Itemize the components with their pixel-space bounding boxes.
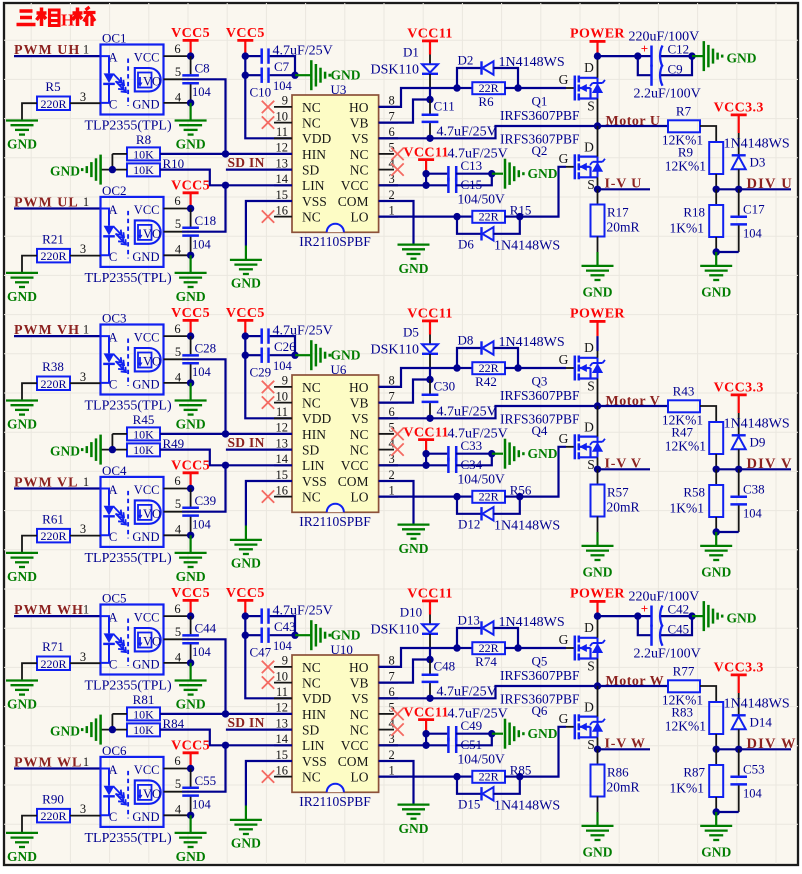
svg-text:11: 11 xyxy=(276,685,288,699)
svg-text:D: D xyxy=(584,419,594,434)
svg-text:12: 12 xyxy=(276,421,289,435)
svg-text:D1: D1 xyxy=(403,45,419,60)
wire R8 to HIN xyxy=(160,153,226,155)
svg-text:104: 104 xyxy=(273,79,293,93)
capacitor C53 104 xyxy=(738,749,740,775)
svg-text:GND: GND xyxy=(176,289,206,304)
resistor R42 22R xyxy=(457,367,472,369)
junction LIN node xyxy=(222,462,229,469)
svg-text:NC: NC xyxy=(302,396,321,411)
wire R84 left to ground xyxy=(101,729,127,731)
svg-text:R8: R8 xyxy=(136,132,151,147)
svg-text:TLP2355(TPL): TLP2355(TPL) xyxy=(85,551,172,566)
capacitor C28 104 xyxy=(190,336,192,354)
svg-text:220R: 220R xyxy=(40,809,66,823)
junction xyxy=(187,379,194,386)
svg-text:IR2110SPBF: IR2110SPBF xyxy=(299,794,371,809)
svg-text:12K%1: 12K%1 xyxy=(665,719,706,734)
wire PWM WH to OC5 pin 1 xyxy=(14,615,101,617)
resistor R86 20mR shunt xyxy=(597,749,599,764)
wire OC3 pin 4 GND xyxy=(164,382,191,384)
svg-text:C45: C45 xyxy=(668,622,690,637)
resistor R56 22R xyxy=(457,496,472,498)
capacitor C34 104/50V xyxy=(426,464,447,466)
wire LO pin 1 to R85 xyxy=(379,775,457,777)
svg-text:C13: C13 xyxy=(461,158,483,173)
svg-text:C28: C28 xyxy=(195,341,217,356)
junction xyxy=(453,773,460,780)
svg-text:3: 3 xyxy=(80,802,86,816)
svg-text:1N4148WS: 1N4148WS xyxy=(494,239,560,254)
svg-text:1: 1 xyxy=(389,763,395,777)
svg-text:C12: C12 xyxy=(668,42,690,57)
wire motor node to R7 xyxy=(598,125,669,127)
svg-text:GND: GND xyxy=(331,68,361,83)
svg-text:GND: GND xyxy=(399,541,429,556)
svg-text:IRFS3607PBF: IRFS3607PBF xyxy=(500,108,580,123)
svg-text:NC: NC xyxy=(350,723,369,738)
svg-text:6: 6 xyxy=(389,125,395,139)
svg-text:R17: R17 xyxy=(607,205,629,220)
svg-text:D: D xyxy=(584,340,594,355)
resistor R85 22R xyxy=(457,775,472,777)
svg-text:R87: R87 xyxy=(683,765,705,780)
svg-text:5: 5 xyxy=(175,497,181,511)
svg-text:VSS: VSS xyxy=(302,474,327,489)
svg-text:NC: NC xyxy=(302,490,321,505)
transistor Q3 IRFS3607PBF xyxy=(574,356,577,381)
isolation dashed line OC4 xyxy=(127,491,129,539)
svg-text:C48: C48 xyxy=(434,659,456,674)
svg-text:DSK110: DSK110 xyxy=(371,343,420,358)
svg-text:+: + xyxy=(641,601,648,616)
junction xyxy=(187,485,194,492)
svg-text:4.7uF/25V: 4.7uF/25V xyxy=(273,324,333,339)
svg-text:VCC5: VCC5 xyxy=(226,306,265,321)
svg-text:C42: C42 xyxy=(668,602,690,617)
wire PWM VH to OC3 pin 1 xyxy=(14,335,101,337)
svg-text:16: 16 xyxy=(276,763,289,777)
junction xyxy=(594,52,601,59)
svg-text:R18: R18 xyxy=(683,205,705,220)
wire R61 right to OC4 pin 3 xyxy=(70,535,101,537)
wire C38 bottom to R58 bottom xyxy=(716,531,739,533)
wire VCC5 down to VDD pin 11 xyxy=(245,56,292,138)
svg-text:C53: C53 xyxy=(743,762,765,777)
svg-text:C51: C51 xyxy=(461,737,483,752)
svg-text:IR2110SPBF: IR2110SPBF xyxy=(299,234,371,249)
svg-text:104: 104 xyxy=(192,237,212,251)
wire motor node to R77 xyxy=(598,685,669,687)
svg-text:104: 104 xyxy=(192,797,212,811)
svg-text:GND: GND xyxy=(331,348,361,363)
wire HO pin 8 to gate resistor xyxy=(379,648,457,667)
svg-text:G: G xyxy=(559,711,569,726)
svg-text:6: 6 xyxy=(174,194,180,208)
capacitor C9 2.2uF/100V polarized xyxy=(638,56,651,75)
svg-text:2: 2 xyxy=(389,188,395,202)
no-connect X pin 4 xyxy=(391,443,403,455)
svg-text:IRFS3607PBF: IRFS3607PBF xyxy=(500,692,580,707)
svg-text:104/50V: 104/50V xyxy=(458,192,506,207)
svg-text:13: 13 xyxy=(276,716,289,730)
optocoupler OC1 xyxy=(101,45,164,115)
svg-text:C30: C30 xyxy=(434,379,456,394)
svg-text:IRFS3607PBF: IRFS3607PBF xyxy=(500,668,580,683)
resistor R17 20mR shunt xyxy=(597,189,599,204)
svg-text:11: 11 xyxy=(276,405,288,419)
svg-text:3: 3 xyxy=(80,522,86,536)
svg-text:VDD: VDD xyxy=(302,691,331,706)
svg-text:GND: GND xyxy=(132,658,159,672)
svg-text:VSS: VSS xyxy=(302,754,327,769)
wire VSS pin 15 to ground xyxy=(246,201,292,246)
svg-text:14: 14 xyxy=(276,452,289,466)
junction xyxy=(735,186,742,193)
junction xyxy=(187,812,194,819)
no-connect X pin 10 xyxy=(262,676,274,688)
ground under R86 xyxy=(596,812,598,826)
svg-text:22R: 22R xyxy=(479,210,499,224)
svg-text:9: 9 xyxy=(282,94,288,108)
ground under C8 xyxy=(190,103,192,121)
ground under R21 xyxy=(6,272,38,274)
wire R38 left to ground xyxy=(22,383,37,400)
svg-text:VB: VB xyxy=(350,396,369,411)
junction xyxy=(634,52,641,59)
svg-text:VSS: VSS xyxy=(302,194,327,209)
svg-text:C34: C34 xyxy=(461,457,483,472)
svg-text:S: S xyxy=(587,98,595,113)
svg-text:VB: VB xyxy=(350,676,369,691)
svg-text:220R: 220R xyxy=(40,249,66,263)
svg-text:GND: GND xyxy=(231,555,261,570)
junction xyxy=(187,332,194,339)
svg-text:GND: GND xyxy=(583,845,613,860)
junction xyxy=(187,205,194,212)
svg-text:104: 104 xyxy=(273,639,293,653)
svg-text:3: 3 xyxy=(80,650,86,664)
svg-text:D12: D12 xyxy=(458,517,480,532)
junction motor node xyxy=(594,682,601,689)
no-connect X pin 5 xyxy=(391,708,403,720)
svg-text:3: 3 xyxy=(80,370,86,384)
svg-text:5: 5 xyxy=(175,217,181,231)
svg-text:5: 5 xyxy=(175,625,181,639)
svg-text:GND: GND xyxy=(7,697,37,712)
svg-text:R90: R90 xyxy=(42,791,64,806)
svg-text:NC: NC xyxy=(302,210,321,225)
wire R7 to R9 xyxy=(700,126,716,142)
op-amp driver U6 IR2110SPBF body xyxy=(292,375,379,512)
svg-text:VCC5: VCC5 xyxy=(226,586,265,601)
junction xyxy=(422,730,429,737)
svg-text:C: C xyxy=(109,658,117,672)
svg-text:D: D xyxy=(584,620,594,635)
svg-text:VCC3.3: VCC3.3 xyxy=(714,661,764,676)
diode D6 1N4148WS xyxy=(457,217,481,234)
svg-text:104: 104 xyxy=(192,517,212,531)
svg-text:IRFS3607PBF: IRFS3607PBF xyxy=(500,412,580,427)
svg-text:14: 14 xyxy=(276,732,289,746)
wire R90 left to ground xyxy=(22,816,37,833)
junction VB node xyxy=(426,376,433,383)
svg-text:GND: GND xyxy=(132,378,159,392)
junction xyxy=(187,765,194,772)
wire OC3 pin 6 VCC xyxy=(164,335,191,337)
svg-text:GND: GND xyxy=(176,569,206,584)
svg-text:22R: 22R xyxy=(479,490,499,504)
svg-text:20mR: 20mR xyxy=(607,220,640,235)
svg-text:104/50V: 104/50V xyxy=(458,752,506,767)
junction VB node xyxy=(426,656,433,663)
svg-text:TLP2355(TPL): TLP2355(TPL) xyxy=(85,119,172,134)
svg-text:HIN: HIN xyxy=(302,427,326,442)
svg-text:2: 2 xyxy=(389,468,395,482)
svg-text:15: 15 xyxy=(276,468,289,482)
wire sense net xyxy=(598,468,651,470)
svg-text:D: D xyxy=(584,139,594,154)
wire to Q6 gate xyxy=(520,727,566,777)
svg-text:TLP2355(TPL): TLP2355(TPL) xyxy=(85,679,172,694)
wire SD_IN to SD pin 13 xyxy=(226,728,292,730)
ground right of C7 xyxy=(295,74,311,76)
svg-text:VDD: VDD xyxy=(302,411,331,426)
junction xyxy=(242,332,249,339)
ground under VSS xyxy=(230,259,262,261)
svg-text:D9: D9 xyxy=(750,435,766,450)
svg-text:R42: R42 xyxy=(475,374,497,389)
svg-text:1: 1 xyxy=(83,755,89,769)
svg-text:R21: R21 xyxy=(42,231,64,246)
svg-text:C29: C29 xyxy=(250,365,272,380)
junction xyxy=(109,166,116,173)
svg-text:4.7uF/25V: 4.7uF/25V xyxy=(437,124,497,139)
svg-text:OC5: OC5 xyxy=(102,591,127,606)
resistor R15 22R xyxy=(457,216,472,218)
svg-text:VCC5: VCC5 xyxy=(171,739,210,754)
svg-text:104: 104 xyxy=(743,507,763,521)
junction xyxy=(713,808,720,815)
wire POWER to C12 xyxy=(598,55,638,57)
svg-text:GND: GND xyxy=(132,250,159,264)
wire R61 left to ground xyxy=(22,536,37,553)
svg-text:DSK110: DSK110 xyxy=(371,63,420,78)
svg-text:C38: C38 xyxy=(743,482,765,497)
svg-text:4: 4 xyxy=(175,90,182,104)
wire POWER to Q1 drain xyxy=(597,56,599,78)
svg-text:GND: GND xyxy=(701,845,731,860)
capacitor C11 4.7uF/25V xyxy=(429,100,431,114)
wire Q2 source to sense node xyxy=(597,177,599,189)
svg-text:TLP2355(TPL): TLP2355(TPL) xyxy=(85,831,172,846)
svg-text:6: 6 xyxy=(174,322,180,336)
svg-text:VO: VO xyxy=(143,507,161,521)
junction xyxy=(187,659,194,666)
svg-text:GND: GND xyxy=(231,275,261,290)
junction VS node xyxy=(426,695,433,702)
svg-text:10: 10 xyxy=(276,109,289,123)
svg-text:COM: COM xyxy=(338,474,369,489)
svg-text:POWER: POWER xyxy=(570,307,625,322)
svg-text:16: 16 xyxy=(276,483,289,497)
svg-text:VO: VO xyxy=(143,75,161,89)
svg-text:D15: D15 xyxy=(458,797,480,812)
resistor R87 1K%1 xyxy=(715,749,717,765)
wire R49 left to ground xyxy=(101,449,127,451)
svg-text:11: 11 xyxy=(276,125,288,139)
svg-text:12: 12 xyxy=(276,701,289,715)
wire R77 to R83 xyxy=(700,686,716,702)
junction xyxy=(187,612,194,619)
svg-text:LO: LO xyxy=(351,490,369,505)
svg-text:5: 5 xyxy=(175,65,181,79)
light arrows OC4 xyxy=(114,507,125,518)
svg-text:NC: NC xyxy=(302,660,321,675)
ground under R58 xyxy=(715,532,717,546)
svg-text:1: 1 xyxy=(83,43,89,57)
wire sense net xyxy=(598,748,651,750)
svg-text:SD: SD xyxy=(302,443,320,458)
svg-text:9: 9 xyxy=(282,654,288,668)
svg-text:C43: C43 xyxy=(274,619,296,634)
junction xyxy=(242,52,249,59)
junction xyxy=(291,72,298,79)
isolation dashed line OC5 xyxy=(127,619,129,667)
wire VCC5 down to VDD pin 11 xyxy=(245,336,292,418)
svg-text:GND: GND xyxy=(132,530,159,544)
svg-text:COM: COM xyxy=(338,754,369,769)
wire C53 bottom to R87 bottom xyxy=(716,811,739,813)
svg-text:R5: R5 xyxy=(45,79,60,94)
svg-text:2.2uF/100V: 2.2uF/100V xyxy=(634,87,701,102)
junction xyxy=(291,352,298,359)
junction motor node xyxy=(594,122,601,129)
wire COM pin 2 to ground xyxy=(379,761,414,804)
junction xyxy=(242,72,249,79)
svg-text:104: 104 xyxy=(192,365,212,379)
svg-text:6: 6 xyxy=(389,405,395,419)
svg-text:104: 104 xyxy=(743,787,763,801)
svg-text:10K: 10K xyxy=(133,443,154,457)
svg-text:R43: R43 xyxy=(673,384,695,399)
svg-text:5: 5 xyxy=(175,777,181,791)
photo-detector OC2 xyxy=(135,220,161,243)
svg-text:GND: GND xyxy=(528,726,558,741)
svg-text:R58: R58 xyxy=(683,485,705,500)
svg-text:NC: NC xyxy=(350,147,369,162)
svg-text:OC3: OC3 xyxy=(102,311,127,326)
wire VS pin 6 to motor node xyxy=(379,417,430,419)
svg-text:D13: D13 xyxy=(458,613,480,628)
wire R5 left to ground xyxy=(22,103,37,120)
wire R38 right to OC3 pin 3 xyxy=(70,382,101,384)
svg-text:8: 8 xyxy=(389,374,395,388)
capacitor C8 104 xyxy=(190,56,192,74)
ground under COM xyxy=(398,803,430,805)
LED inside OC2 xyxy=(101,209,110,226)
svg-text:4.7uF/25V: 4.7uF/25V xyxy=(437,404,497,419)
isolation dashed line OC1 xyxy=(127,59,129,107)
svg-text:VCC5: VCC5 xyxy=(171,179,210,194)
junction xyxy=(422,450,429,457)
junction xyxy=(453,364,460,371)
svg-text:D3: D3 xyxy=(750,155,766,170)
wire R71 right to OC5 pin 3 xyxy=(70,662,101,664)
svg-text:IRFS3607PBF: IRFS3607PBF xyxy=(500,388,580,403)
junction xyxy=(422,170,429,177)
junction xyxy=(516,493,523,500)
resistor R18 1K%1 xyxy=(715,189,717,205)
capacitor C47 xyxy=(245,634,260,636)
junction sense node xyxy=(594,186,601,193)
svg-text:1K%1: 1K%1 xyxy=(670,501,705,516)
svg-text:VCC: VCC xyxy=(134,483,160,497)
svg-text:LIN: LIN xyxy=(302,178,325,193)
svg-text:VCC11: VCC11 xyxy=(407,27,453,42)
svg-text:VCC: VCC xyxy=(341,738,369,753)
light arrows OC5 xyxy=(114,634,125,645)
svg-text:POWER: POWER xyxy=(570,587,625,602)
ground under C55 xyxy=(190,815,192,833)
svg-text:IRFS3607PBF: IRFS3607PBF xyxy=(500,132,580,147)
op-amp driver U3 IR2110SPBF body xyxy=(292,95,379,232)
transistor Q1 IRFS3607PBF xyxy=(574,76,577,101)
wire POWER to C42 xyxy=(598,615,638,617)
svg-text:R47: R47 xyxy=(671,425,693,440)
svg-text:SD: SD xyxy=(302,163,320,178)
svg-text:C: C xyxy=(109,378,117,392)
svg-text:10: 10 xyxy=(276,389,289,403)
ground under R71 xyxy=(6,679,38,681)
transistor Q6 IRFS3607PBF xyxy=(574,714,577,739)
wire OC1 pin 6 VCC xyxy=(164,55,191,57)
svg-text:VCC: VCC xyxy=(134,331,160,345)
svg-text:GND: GND xyxy=(727,611,757,626)
svg-text:S: S xyxy=(587,658,595,673)
wire R10 to LIN xyxy=(160,170,226,186)
svg-text:4: 4 xyxy=(175,243,182,257)
photo-detector OC6 xyxy=(135,780,161,803)
wire OC5 pin 6 VCC xyxy=(164,615,191,617)
ground right of C13 xyxy=(492,173,503,175)
svg-text:C26: C26 xyxy=(274,339,296,354)
wire VSS pin 15 to ground xyxy=(246,481,292,526)
junction xyxy=(291,632,298,639)
svg-text:4.7uF/25V: 4.7uF/25V xyxy=(437,684,497,699)
svg-text:D8: D8 xyxy=(458,333,474,348)
svg-text:NC: NC xyxy=(350,163,369,178)
junction xyxy=(422,462,429,469)
svg-text:1: 1 xyxy=(83,195,89,209)
junction xyxy=(514,644,521,651)
svg-text:R83: R83 xyxy=(671,705,693,720)
isolation dashed line OC3 xyxy=(127,339,129,387)
wire OC2 pin 6 VCC xyxy=(164,208,191,210)
ground under COM xyxy=(398,243,430,245)
wire Q1 source to motor node xyxy=(597,99,599,127)
wire VS pin 6 to motor node xyxy=(379,697,430,699)
junction xyxy=(453,644,460,651)
wire motor node to Q2 drain xyxy=(597,126,599,157)
svg-text:8: 8 xyxy=(389,94,395,108)
svg-text:C39: C39 xyxy=(195,493,217,508)
svg-text:NC: NC xyxy=(302,100,321,115)
capacitor C26 4.7uF/25V xyxy=(245,335,260,337)
svg-text:R38: R38 xyxy=(42,359,64,374)
svg-text:VS: VS xyxy=(351,691,368,706)
svg-text:220R: 220R xyxy=(40,377,66,391)
